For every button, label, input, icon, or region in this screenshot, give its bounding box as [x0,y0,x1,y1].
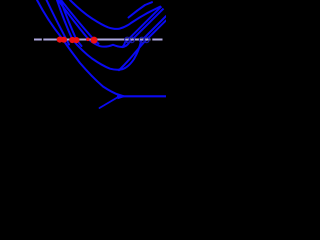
hole (open) circle 4 [144,37,149,42]
band B inner branch S3b (through dot B2, merges into cup) [61,0,82,46]
corner clip (black) [155,0,166,11]
band-structure plot [0,0,166,134]
hole (open) circle 1 [125,37,130,42]
camel band inner branch S4b (through big dot C2, merges into camel dip) [61,0,99,44]
hole (open) circle 3 [139,37,144,42]
lower barb of arrowhead [100,97,120,109]
upper anticrossing band W (left branch, flat bottom, outer right branch) [70,0,166,29]
camel band S4a (small dot C1, hump, rises to open circle 1, exits right) [58,0,166,47]
upper anticrossing band W inner right branch [129,2,153,17]
electron (filled) red dot A1 [57,37,63,43]
arrowhead at junction [118,93,127,99]
band A inner branch S2 (through dot A2, merges into shaft) [47,0,70,45]
band B right fork to open circle 4 [119,20,166,70]
Fermi level dashed line [34,38,163,40]
flat band bottom horizontal line [118,95,166,97]
electron (filled) big red dot C2 [91,37,98,44]
electron (filled) red dot B2 [73,37,79,43]
band A outer branch S1 (through dot A1, continues as shaft to junction) [37,0,120,95]
electron (filled) small red dot C1 [86,38,90,42]
camel band right fork to open circle 2 [123,6,167,47]
hole (open) circle 2 [129,37,134,42]
electron (filled) red dot B1 [69,37,75,43]
band B branch S3a (dot B1, cup bottom, rises to open circle 3, exits right) [57,0,166,70]
electron (filled) red dot A2 [61,37,67,43]
